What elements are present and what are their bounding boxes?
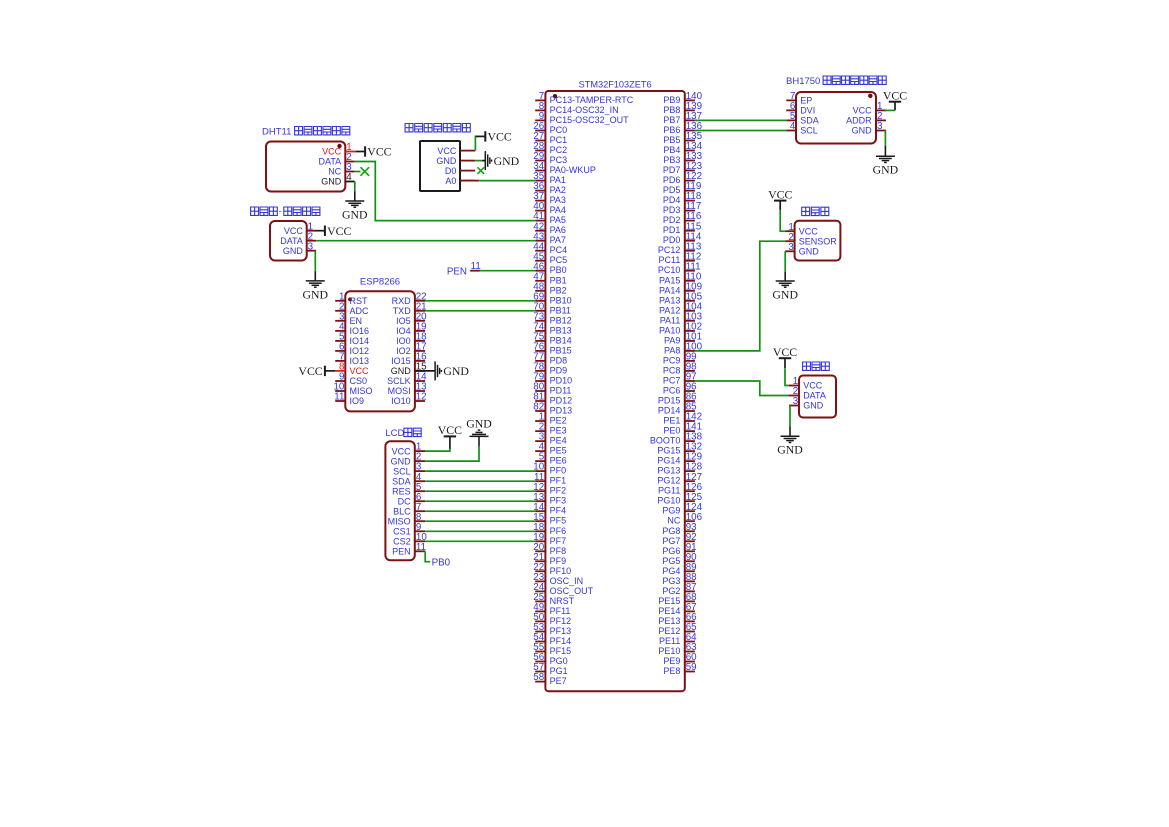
svg-text:PA9: PA9 bbox=[664, 335, 680, 345]
svg-text:SDA: SDA bbox=[392, 476, 411, 486]
U5 pin 3 EN bbox=[335, 311, 362, 326]
sensor U7 BH1750 body bbox=[796, 92, 876, 144]
svg-text:MISO: MISO bbox=[388, 516, 411, 526]
svg-text:PG2: PG2 bbox=[662, 586, 680, 596]
U6 pin 1 VCC bbox=[392, 442, 426, 457]
U1 pin 47 PB1 bbox=[533, 271, 566, 285]
U1 pin 56 PG0 bbox=[533, 652, 567, 666]
U1 pin 78 PD9 bbox=[533, 362, 567, 376]
svg-text:VCC: VCC bbox=[799, 226, 819, 236]
U1 pin 139 PB8 bbox=[663, 101, 702, 115]
svg-text:PE3: PE3 bbox=[550, 426, 567, 436]
svg-text:IO13: IO13 bbox=[350, 356, 370, 366]
wire U8 VCC to VCC symbol bbox=[780, 211, 785, 231]
svg-text:PD14: PD14 bbox=[658, 406, 681, 416]
U1 pin 40 PA4 bbox=[533, 201, 566, 215]
svg-text:PF9: PF9 bbox=[550, 556, 567, 566]
U1 pin 55 PF15 bbox=[533, 642, 571, 656]
U6 pin 5 RES bbox=[392, 482, 425, 497]
svg-text:PE11: PE11 bbox=[659, 636, 680, 646]
svg-text:PEN: PEN bbox=[392, 547, 411, 557]
U5 pin 21 TXD bbox=[393, 301, 427, 316]
U1 pin 137 PB7 bbox=[663, 111, 702, 125]
U1 pin 43 PA7 bbox=[533, 231, 566, 245]
U9 title buzzer bbox=[803, 362, 830, 370]
U3 title soil moisture sensor bbox=[405, 124, 470, 132]
svg-text:3: 3 bbox=[793, 396, 799, 407]
svg-text:PG11: PG11 bbox=[658, 486, 680, 496]
U5 pin 4 IO16 bbox=[335, 322, 369, 337]
U1 pin 49 PF11 bbox=[533, 602, 570, 616]
svg-text:PA14: PA14 bbox=[659, 285, 680, 295]
U1 pin 29 PC3 bbox=[533, 151, 567, 165]
svg-text:BH1750: BH1750 bbox=[786, 76, 820, 87]
wire U6 DC to U1 PF3 bbox=[425, 500, 535, 502]
svg-text:GND: GND bbox=[283, 246, 304, 256]
relay U4 body (water pump control) bbox=[270, 221, 307, 261]
svg-text:PC4: PC4 bbox=[550, 245, 568, 255]
U1 pin 25 NRST bbox=[533, 592, 574, 606]
U4 title relay-pump control bbox=[251, 206, 320, 217]
U1 pin 142 PE1 bbox=[663, 412, 702, 426]
U8 pin 1 VCC bbox=[785, 222, 818, 237]
U1 pin 82 PD13 bbox=[533, 402, 572, 416]
sensor U8 flow meter body bbox=[795, 221, 841, 261]
svg-text:PE7: PE7 bbox=[550, 676, 567, 686]
svg-text:PG6: PG6 bbox=[662, 546, 680, 556]
svg-text:PE10: PE10 bbox=[658, 646, 680, 656]
U1 pin 7 PC13-TAMPER-RTC bbox=[535, 91, 634, 105]
svg-text:VCC: VCC bbox=[773, 345, 797, 359]
U6 pin 10 CS2 bbox=[393, 532, 427, 547]
svg-text:PE0: PE0 bbox=[663, 426, 680, 436]
svg-text:PB11: PB11 bbox=[550, 305, 571, 315]
svg-text:PG5: PG5 bbox=[662, 556, 680, 566]
svg-text:IO14: IO14 bbox=[350, 336, 370, 346]
U5 pin 11 IO9 bbox=[334, 392, 364, 407]
U1 pin 134 PB4 bbox=[663, 141, 702, 155]
wire U5 TXD to U1 PB11 bbox=[425, 310, 535, 312]
U1 pin 96 PC6 bbox=[663, 382, 697, 396]
svg-text:PD11: PD11 bbox=[550, 386, 572, 396]
U1 pin 125 PG10 bbox=[657, 492, 702, 506]
svg-text:PA13: PA13 bbox=[659, 295, 680, 305]
U1 pin 75 PB14 bbox=[533, 332, 571, 346]
U7 pin 2 ADDR bbox=[846, 111, 886, 126]
svg-text:SENSOR: SENSOR bbox=[799, 236, 838, 246]
U1 pin 41 PA5 bbox=[533, 211, 566, 225]
svg-text:DATA: DATA bbox=[803, 391, 826, 401]
svg-text:PC2: PC2 bbox=[550, 145, 568, 155]
svg-text:VCC: VCC bbox=[327, 224, 351, 238]
U6 pin 3 SCL bbox=[393, 462, 425, 477]
U4 pin 3 GND bbox=[283, 241, 316, 256]
U3 pin D0 bbox=[445, 166, 475, 176]
svg-text:GND: GND bbox=[772, 287, 798, 301]
U1 pin 19 PF7 bbox=[533, 532, 566, 546]
wire U8 SENSOR to U1 PA8 bbox=[695, 241, 785, 351]
svg-text:PA12: PA12 bbox=[659, 305, 680, 315]
U5 pin 20 IO5 bbox=[396, 311, 427, 326]
svg-text:PG8: PG8 bbox=[662, 526, 680, 536]
U1 pin 53 PF13 bbox=[533, 622, 571, 636]
U1 pin 90 PG5 bbox=[662, 552, 697, 566]
U1 pin 36 PA2 bbox=[533, 181, 566, 195]
svg-text:PG4: PG4 bbox=[662, 566, 680, 576]
U1 pin 18 PF6 bbox=[533, 522, 566, 536]
U6 pin 2 GND bbox=[391, 452, 426, 467]
svg-text:-: - bbox=[279, 206, 282, 217]
U1 pin 50 PF12 bbox=[533, 612, 571, 626]
U2 pin-1 dot bbox=[337, 144, 341, 148]
U5 pin 1 RST bbox=[335, 291, 368, 306]
svg-text:PD10: PD10 bbox=[550, 376, 573, 386]
VCC power symbol at U7 pin 1 bbox=[883, 89, 907, 111]
U7 title BH1750 light intensity sensor bbox=[786, 76, 886, 87]
svg-text:11: 11 bbox=[334, 392, 344, 403]
U1 pin-1 dot bbox=[553, 94, 557, 98]
wire U6 SCL to U1 PF0 bbox=[425, 470, 535, 472]
U1 pin 127 PG12 bbox=[657, 472, 702, 486]
U1 pin 126 PG11 bbox=[658, 482, 703, 496]
svg-text:PB8: PB8 bbox=[663, 105, 680, 115]
svg-text:SCLK: SCLK bbox=[387, 376, 411, 386]
U1 pin 112 PC11 bbox=[659, 251, 702, 265]
svg-text:PC9: PC9 bbox=[663, 355, 681, 365]
svg-text:SCL: SCL bbox=[393, 466, 411, 476]
svg-text:DHT11: DHT11 bbox=[262, 127, 291, 138]
U1 pin 44 PC4 bbox=[533, 241, 567, 255]
svg-text:IO4: IO4 bbox=[396, 326, 411, 336]
U1 pin 98 PC8 bbox=[663, 362, 697, 376]
U1 pin 70 PB11 bbox=[533, 301, 571, 315]
U8 pin 2 SENSOR bbox=[785, 232, 837, 247]
svg-text:3: 3 bbox=[308, 241, 314, 252]
svg-text:PE1: PE1 bbox=[663, 416, 680, 426]
svg-text:PG12: PG12 bbox=[657, 476, 680, 486]
svg-text:PB13: PB13 bbox=[550, 325, 572, 335]
U9 pin 1 VCC bbox=[789, 376, 823, 391]
svg-text:PG10: PG10 bbox=[657, 496, 680, 506]
U1 pin 63 PE10 bbox=[658, 642, 697, 656]
svg-text:NRST: NRST bbox=[550, 596, 575, 606]
svg-text:4: 4 bbox=[790, 121, 796, 132]
U1 pin 141 PE0 bbox=[663, 422, 702, 436]
display U6 LCD body bbox=[385, 441, 414, 560]
U1 pin 4 PE5 bbox=[535, 442, 566, 456]
svg-text:DC: DC bbox=[398, 496, 411, 506]
svg-text:MOSI: MOSI bbox=[388, 386, 411, 396]
U1 pin 140 PB9 bbox=[663, 91, 702, 105]
svg-text:STM32F103ZET6: STM32F103ZET6 bbox=[579, 79, 652, 89]
wire U5 RXD to U1 PB10 bbox=[425, 300, 535, 302]
svg-text:PA6: PA6 bbox=[550, 225, 566, 235]
svg-text:PA2: PA2 bbox=[550, 185, 566, 195]
U1 pin 2 PE3 bbox=[535, 422, 566, 436]
U1 pin 86 PD15 bbox=[658, 392, 697, 406]
svg-text:3: 3 bbox=[788, 242, 794, 253]
svg-text:PB2: PB2 bbox=[550, 285, 567, 295]
svg-text:GND: GND bbox=[852, 126, 873, 136]
svg-text:PA3: PA3 bbox=[550, 195, 566, 205]
svg-text:PA5: PA5 bbox=[550, 215, 566, 225]
svg-text:PB7: PB7 bbox=[663, 115, 680, 125]
wire U9 VCC to VCC symbol bbox=[785, 368, 789, 385]
svg-text:PA4: PA4 bbox=[550, 205, 566, 215]
svg-text:IO16: IO16 bbox=[350, 326, 370, 336]
U2 pin 1 VCC bbox=[322, 142, 355, 156]
MCU U1 STM32F103ZET6 body bbox=[545, 91, 684, 691]
U6 pin 6 DC bbox=[398, 492, 426, 507]
U1 pin 76 PB15 bbox=[533, 342, 571, 356]
svg-text:PG15: PG15 bbox=[657, 446, 680, 456]
svg-text:IO9: IO9 bbox=[350, 396, 365, 406]
U6 pin 7 BLC bbox=[393, 502, 425, 517]
svg-text:VCC: VCC bbox=[298, 364, 322, 378]
svg-text:PG0: PG0 bbox=[550, 656, 568, 666]
svg-text:VCC: VCC bbox=[488, 130, 512, 144]
svg-text:3: 3 bbox=[877, 121, 883, 132]
U1 pin 20 PF8 bbox=[533, 542, 566, 556]
svg-text:DATA: DATA bbox=[319, 156, 342, 166]
U1 pin 135 PB5 bbox=[663, 131, 702, 145]
VCC power symbol above U6 bbox=[438, 423, 462, 449]
U1 pin 14 PF4 bbox=[533, 502, 566, 516]
svg-text:PF0: PF0 bbox=[550, 466, 567, 476]
svg-text:DVI: DVI bbox=[800, 106, 815, 116]
U9 pin 3 GND bbox=[789, 396, 824, 411]
U1 pin 74 PB13 bbox=[533, 322, 571, 336]
wire U9 DATA to U1 PC7 bbox=[695, 381, 789, 396]
U1 pin 27 PC1 bbox=[533, 131, 567, 145]
svg-text:PC10: PC10 bbox=[658, 265, 681, 275]
U1 pin 73 PB12 bbox=[533, 311, 571, 325]
U1 pin 69 PB10 bbox=[533, 291, 571, 305]
U1 pin 79 PD10 bbox=[533, 372, 572, 386]
U1 pin 111 PC10 bbox=[658, 261, 701, 275]
svg-text:12: 12 bbox=[416, 392, 427, 403]
wire U3 A0 to U1 PA1 bbox=[460, 180, 535, 182]
svg-text:PD13: PD13 bbox=[550, 406, 573, 416]
svg-text:PC12: PC12 bbox=[658, 245, 681, 255]
U4 pin 1 VCC bbox=[284, 221, 316, 236]
svg-text:PD8: PD8 bbox=[550, 355, 568, 365]
U1 pin 119 PD5 bbox=[663, 181, 701, 195]
svg-text:OSC_IN: OSC_IN bbox=[550, 576, 584, 586]
U3 pin GND bbox=[436, 156, 475, 166]
svg-text:A0: A0 bbox=[445, 176, 456, 186]
svg-text:PE5: PE5 bbox=[550, 446, 567, 456]
U1 pin 100 PA8 bbox=[664, 342, 703, 356]
U5 pin 10 MISO bbox=[333, 382, 372, 397]
U1 pin 68 PE15 bbox=[658, 592, 697, 606]
svg-text:PB15: PB15 bbox=[550, 345, 572, 355]
svg-text:PC14-OSC32_IN: PC14-OSC32_IN bbox=[550, 105, 619, 115]
svg-text:PB14: PB14 bbox=[550, 335, 572, 345]
svg-text:SCL: SCL bbox=[800, 126, 818, 136]
svg-text:GND: GND bbox=[321, 176, 342, 186]
sensor U3 soil-moisture body bbox=[420, 141, 460, 191]
svg-text:PE8: PE8 bbox=[663, 666, 680, 676]
U1 pin 67 PE14 bbox=[658, 602, 696, 616]
svg-text:PB0: PB0 bbox=[550, 265, 567, 275]
U1 pin 60 PE9 bbox=[663, 652, 697, 666]
wire U2 DATA to U1 PA5 bbox=[355, 162, 536, 221]
U5 pin 17 IO2 bbox=[396, 342, 426, 357]
svg-text:PE4: PE4 bbox=[550, 436, 567, 446]
svg-text:PD3: PD3 bbox=[663, 205, 681, 215]
svg-text:IO10: IO10 bbox=[391, 396, 411, 406]
U5 pin 7 IO13 bbox=[335, 352, 369, 367]
U5 pin 19 IO4 bbox=[396, 322, 426, 337]
svg-text:D0: D0 bbox=[445, 166, 457, 176]
U1 pin 115 PD1 bbox=[663, 221, 702, 235]
wire U6 MISO to U1 PF5 bbox=[425, 520, 535, 522]
svg-text:IO5: IO5 bbox=[396, 316, 411, 326]
svg-text:PG7: PG7 bbox=[662, 536, 680, 546]
svg-text:59: 59 bbox=[686, 662, 697, 673]
U1 pin 122 PD6 bbox=[663, 171, 702, 185]
U7 pin 3 GND bbox=[852, 121, 886, 136]
svg-text:PC13-TAMPER-RTC: PC13-TAMPER-RTC bbox=[550, 95, 634, 105]
wire U7 VCC to VCC symbol bbox=[885, 109, 895, 111]
U1 pin 81 PD12 bbox=[533, 392, 572, 406]
svg-text:DATA: DATA bbox=[280, 236, 303, 246]
svg-text:IO0: IO0 bbox=[396, 336, 411, 346]
svg-text:TXD: TXD bbox=[393, 306, 412, 316]
svg-text:EP: EP bbox=[800, 96, 812, 106]
U1 pin 64 PE11 bbox=[659, 632, 697, 646]
svg-text:PA11: PA11 bbox=[660, 315, 681, 325]
U1 pin 116 PD2 bbox=[663, 211, 702, 225]
U1 pin 65 PE12 bbox=[658, 622, 697, 636]
U5 pin 18 IO0 bbox=[396, 332, 427, 347]
svg-text:PB3: PB3 bbox=[663, 155, 680, 165]
svg-text:RXD: RXD bbox=[392, 296, 412, 306]
U1 pin 102 PA10 bbox=[659, 322, 702, 336]
U5 pin 14 SCLK bbox=[387, 372, 427, 387]
U1 pin 28 PC2 bbox=[533, 141, 567, 155]
svg-text:11: 11 bbox=[416, 542, 426, 553]
no-connect X at U3 D0 bbox=[478, 167, 485, 174]
U1 pin 118 PD4 bbox=[663, 191, 702, 205]
wire U6 VCC pin to VCC symbol bbox=[425, 449, 450, 451]
net label PEN pin 11 bbox=[447, 261, 481, 277]
U2 pin 2 DATA bbox=[319, 152, 355, 166]
wire U3 GND to GND symbol bbox=[475, 160, 482, 162]
U1 pin 42 PA6 bbox=[533, 221, 566, 235]
U1 pin 138 BOOT0 bbox=[650, 432, 703, 446]
svg-text:PF8: PF8 bbox=[550, 546, 567, 556]
U5 pin 8 VCC bbox=[335, 362, 369, 377]
svg-text:CS0: CS0 bbox=[350, 376, 368, 386]
GND earth symbol below U8 bbox=[772, 251, 798, 301]
U5 pin 6 IO12 bbox=[335, 342, 369, 357]
svg-text:PB0: PB0 bbox=[432, 557, 451, 568]
U7 pin 5 SDA bbox=[786, 111, 818, 126]
GND symbol (sideways) at U3 bbox=[482, 151, 520, 170]
U1 pin 77 PD8 bbox=[533, 352, 567, 366]
svg-text:PD12: PD12 bbox=[550, 396, 573, 406]
U1 pin 10 PF0 bbox=[533, 462, 566, 476]
U2 pin 3 NC bbox=[328, 162, 354, 176]
svg-text:VCC: VCC bbox=[350, 366, 370, 376]
U1 pin 123 PD7 bbox=[663, 161, 703, 175]
U6 pin 9 CS1 bbox=[393, 522, 425, 537]
svg-text:SDA: SDA bbox=[800, 116, 819, 126]
U6 pin 11 PEN bbox=[392, 542, 426, 557]
svg-text:GND: GND bbox=[799, 247, 820, 257]
svg-text:GND: GND bbox=[873, 163, 899, 177]
U1 pin 46 PB0 bbox=[533, 261, 566, 275]
U1 pin 129 PG14 bbox=[657, 452, 702, 466]
svg-text:VCC: VCC bbox=[392, 446, 412, 456]
svg-text:LCD: LCD bbox=[385, 428, 404, 439]
svg-text:VCC: VCC bbox=[367, 145, 391, 159]
svg-text:IO2: IO2 bbox=[396, 346, 411, 356]
svg-text:PA10: PA10 bbox=[659, 325, 680, 335]
svg-text:ADDR: ADDR bbox=[846, 116, 872, 126]
U5 pin 2 ADC bbox=[335, 301, 369, 316]
svg-text:MISO: MISO bbox=[350, 386, 373, 396]
wire U1 PB7 to U7 SDA bbox=[695, 119, 786, 121]
U7 pin-1 dot bbox=[868, 94, 872, 98]
U1 pin 88 PG3 bbox=[662, 572, 697, 586]
U3 pin VCC bbox=[437, 146, 475, 156]
svg-text:PB5: PB5 bbox=[663, 135, 680, 145]
svg-text:GND: GND bbox=[391, 366, 412, 376]
svg-text:CS1: CS1 bbox=[393, 527, 411, 537]
U6 pin 4 SDA bbox=[392, 472, 425, 487]
svg-text:PE9: PE9 bbox=[663, 656, 680, 666]
U1 pin 114 PD0 bbox=[663, 231, 702, 245]
U1 pin 23 OSC_IN bbox=[533, 572, 583, 586]
svg-text:PE12: PE12 bbox=[658, 626, 680, 636]
svg-text:BOOT0: BOOT0 bbox=[650, 436, 681, 446]
U1 pin 113 PC12 bbox=[658, 241, 702, 255]
svg-text:EN: EN bbox=[350, 316, 363, 326]
svg-text:NC: NC bbox=[667, 516, 680, 526]
wire + net label PB0 at U6 PEN pin bbox=[425, 551, 450, 568]
U5 pin 22 RXD bbox=[392, 291, 427, 306]
svg-text:PG3: PG3 bbox=[662, 576, 680, 586]
svg-text:PB4: PB4 bbox=[663, 145, 680, 155]
svg-text:PG9: PG9 bbox=[662, 506, 680, 516]
svg-text:PC7: PC7 bbox=[663, 376, 681, 386]
svg-text:PG1: PG1 bbox=[550, 666, 568, 676]
VCC power symbol above U8 bbox=[768, 187, 792, 210]
U1 pin 59 PE8 bbox=[663, 662, 696, 676]
U7 pin 4 SCL bbox=[786, 121, 817, 136]
U5 pin-1 dot bbox=[348, 297, 352, 301]
svg-text:PC0: PC0 bbox=[550, 125, 568, 135]
U1 pin 8 PC14-OSC32_IN bbox=[535, 101, 618, 115]
GND symbol (sideways) at U5 pin 15 bbox=[415, 361, 470, 380]
svg-text:PD1: PD1 bbox=[663, 225, 681, 235]
svg-text:PF5: PF5 bbox=[550, 516, 567, 526]
GND earth symbol below U9 bbox=[777, 406, 803, 457]
U1 pin 5 PE6 bbox=[535, 452, 566, 466]
U1 pin 26 PC0 bbox=[533, 121, 567, 135]
U1 pin 101 PA9 bbox=[664, 332, 702, 346]
svg-text:PG14: PG14 bbox=[657, 456, 680, 466]
svg-text:GND: GND bbox=[494, 154, 520, 168]
svg-text:PC8: PC8 bbox=[663, 365, 681, 375]
svg-text:PD9: PD9 bbox=[550, 365, 568, 375]
U1 pin 99 PC9 bbox=[663, 352, 697, 366]
U1 pin 66 PE13 bbox=[658, 612, 697, 626]
U1 pin 54 PF14 bbox=[533, 632, 571, 646]
